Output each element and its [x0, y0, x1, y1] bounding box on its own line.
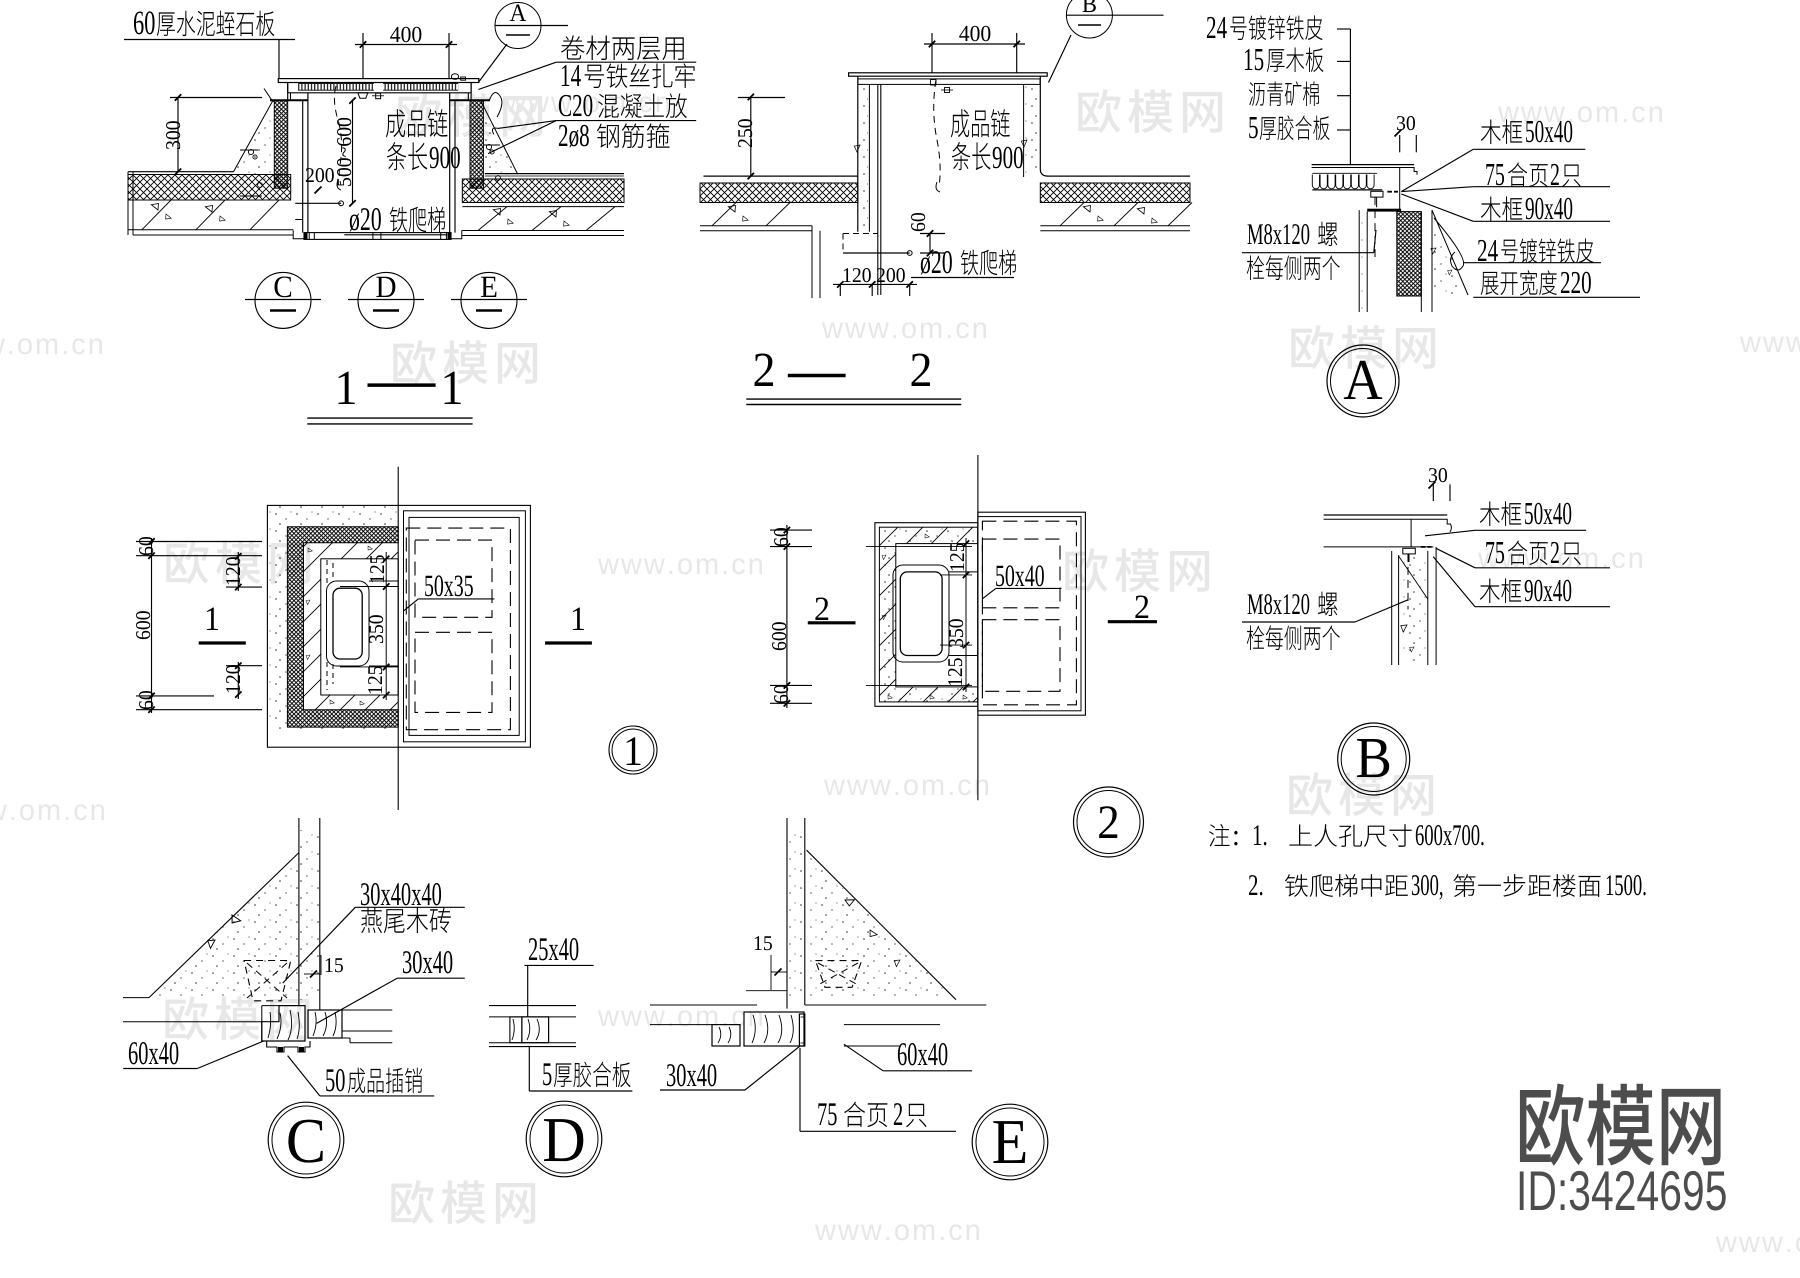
leader from B [1049, 35, 1072, 83]
wall insulation crosshatch left [274, 100, 287, 188]
section 1-1: label 60厚水泥蛭石板 [134, 11, 155, 34]
section 1-1: dim 400 [390, 27, 421, 43]
wall below slab left [811, 226, 813, 298]
wall below detail A [1358, 210, 1360, 312]
plan2 inner dims 125/350/125 [965, 538, 967, 692]
plan2 ext lines inner [866, 546, 972, 548]
detail E wall verticals [786, 818, 788, 1009]
dovetail wood brick dashed [244, 961, 291, 1001]
plan2 outer rect [875, 523, 978, 707]
triangles in C roof [230, 915, 242, 925]
detail B label M8x120 [1248, 594, 1310, 614]
detail bubble B big [1338, 723, 1410, 795]
plan1 inner dims 125/350/125 [385, 552, 387, 700]
plan1 120 dims [237, 552, 239, 591]
wall top line [270, 99, 308, 101]
detail C wall verticals [298, 818, 300, 1006]
hasp B [1403, 548, 1416, 554]
label 75合页2只 (E) [818, 1103, 836, 1125]
bitumen black band [1367, 209, 1401, 212]
dim 200 [306, 168, 334, 182]
dim 30 detail A [1397, 116, 1415, 130]
text 成品链条长900 (2-2) [951, 109, 1010, 137]
leader from A to lid [479, 44, 507, 82]
roof build-up right of shaft [485, 173, 624, 175]
right shaft wall 2-2 [1039, 76, 1041, 169]
detail C floor and wood sill [262, 1005, 279, 1007]
detail B dim 30 [1429, 468, 1447, 482]
left shaft wall 2-2 [857, 76, 859, 232]
text ø20铁爬梯 (2-2) [921, 251, 952, 274]
dim 60 small [929, 234, 931, 254]
dashed conduit [843, 233, 878, 235]
plan2 marker right [1135, 595, 1148, 618]
detail bubble A (section cut) [495, 3, 541, 49]
bubble C big [268, 1102, 344, 1178]
wood 30x40 E [712, 1005, 757, 1046]
detail B labels right [1480, 501, 1521, 526]
label 5厚胶合板 [543, 1063, 551, 1085]
hinge dashes [1387, 191, 1392, 193]
triangles in E roof [845, 897, 856, 907]
roof build-up left of shaft [128, 171, 234, 173]
detail A lid plate [1312, 164, 1415, 166]
bubble E big [972, 1104, 1048, 1180]
plan2 ring diagonal hatch [879, 527, 978, 702]
plan1 outer rect (concrete) [267, 505, 530, 747]
flashing tip left [264, 89, 273, 102]
text 成品链条长900 [386, 109, 448, 137]
detail E roof slope [807, 850, 956, 1000]
plan1 crosshatch ring [287, 527, 398, 727]
hasp at lid center [358, 93, 368, 98]
shaft walls section 1-1 [287, 83, 289, 101]
triangles in walls [854, 145, 860, 153]
right flashing slope C20 [481, 101, 518, 174]
flashing hook right (roll material) [489, 93, 502, 117]
leader [478, 62, 556, 89]
detail bubble A (big) [1327, 345, 1399, 417]
plan2 left dims [786, 525, 788, 708]
label 60x40 (E) [898, 1043, 947, 1065]
logo ID:3424695 [1520, 1171, 1726, 1211]
ladder rails [877, 84, 879, 295]
rebar symbols left [248, 149, 253, 154]
detail A label column left [1207, 17, 1227, 38]
left edge verticals [127, 172, 129, 235]
bubble D big [526, 1101, 602, 1177]
detail B wall [1391, 551, 1393, 665]
concrete right of wall A [1432, 210, 1468, 295]
ladder rung 2-2 [843, 252, 910, 254]
section 2-2 lid plate [849, 73, 1048, 76]
right label block: 卷材两层用/14号铁丝扎牢 [561, 35, 684, 60]
section 2-2: dim 400 [959, 26, 990, 42]
plan2 lid half [978, 512, 1086, 715]
wall crosshatch band A [1397, 212, 1422, 296]
label 25x40 [529, 938, 578, 960]
detail C roof slope [149, 853, 299, 998]
dim 15 detail C [326, 958, 343, 972]
label ticks and connector [1337, 28, 1350, 30]
roof left of shaft 2-2 [704, 175, 858, 177]
detail D wood blocks [510, 1017, 522, 1043]
plan2 marker left [815, 597, 828, 620]
chain dashed section1 [334, 86, 341, 185]
logo 欧模网 [1520, 1084, 1721, 1166]
plan1 lid half rects [404, 511, 526, 742]
plan2 bubble 2 [1074, 787, 1144, 857]
dovetail dashed E [816, 961, 862, 988]
wood piece 30x40 with grain [308, 1010, 342, 1038]
detail bubble B top [1066, 0, 1112, 38]
wood piece 60x40 with grain [262, 1006, 305, 1041]
rebar symbols right [486, 144, 491, 149]
label 60x40 (C) [129, 1042, 178, 1064]
plan1 lid dashed rects [406, 528, 510, 730]
label 30x40x40 燕尾木砖 [361, 883, 441, 905]
dim 300 left [177, 98, 179, 172]
dim 500~600 (rotated) [352, 101, 354, 204]
roof slab left (structure) [128, 199, 291, 201]
dims 120 200 bottom [833, 283, 917, 285]
ladder rung section1 [295, 202, 341, 204]
plan1 inner concrete strip w/ diagonal hatch [321, 559, 398, 695]
labels right of detail A [1481, 119, 1522, 144]
scallop band (insulation roll) [1312, 175, 1374, 189]
plan1 left dim chain [151, 538, 153, 713]
leader to lid [278, 40, 280, 79]
hasp square detail A [1371, 191, 1383, 197]
shaft bottom collar [293, 230, 304, 239]
bolt dashed detail A [1374, 197, 1376, 257]
plan1 hinge dashes [326, 560, 328, 585]
plan2 curb rounded rects [893, 565, 949, 662]
plan1 split line [397, 467, 399, 810]
label 50成品插销 [326, 1069, 344, 1091]
chain dashed 2-2 [934, 80, 940, 187]
plan2 frame rect [896, 544, 978, 687]
lid comb battens [298, 84, 374, 91]
dim 250 [750, 97, 752, 176]
plan1 label 50x35 [425, 575, 473, 596]
detail D plate lines [489, 1005, 576, 1007]
dim 15 E [755, 936, 772, 950]
detail B frame 50x40 [1410, 519, 1412, 547]
plan1 bubble 1 [609, 726, 657, 774]
plan1 curb rounded rects [327, 581, 370, 666]
right label block: C20混凝土放/2ø8钢筋箍 [559, 95, 592, 117]
hinge pin E [799, 1014, 804, 1046]
plan1 section marker left [207, 608, 218, 630]
label 30x40 (E) [667, 1064, 716, 1086]
pins 50成品插销 [267, 1041, 310, 1052]
frame under plate [1399, 168, 1401, 211]
roof right of shaft 2-2 [1048, 175, 1190, 177]
title 1-1 [339, 372, 355, 404]
detail E floor [650, 1004, 757, 1006]
lid pull ring [451, 74, 458, 80]
detail B lid plates [1324, 514, 1448, 516]
watermark layer [398, 93, 542, 137]
plan1 section marker right [573, 608, 584, 630]
wood 60x40 E [740, 1005, 844, 1046]
left flashing slope C20 [234, 101, 275, 172]
notes [1209, 824, 1229, 846]
wall insulation crosshatch right [470, 100, 483, 188]
text ø20铁爬梯 [350, 208, 381, 231]
leader curve 24号镀锌铁皮 bottom [1434, 218, 1464, 270]
title 2-2 [755, 354, 773, 386]
lid side rails [287, 83, 289, 93]
hinge dashes B [1421, 546, 1426, 548]
hasp marks [931, 80, 937, 86]
section 1-1: lid plate [278, 79, 479, 83]
bolt dashed B [1407, 554, 1409, 610]
label 30x40 (C) [403, 951, 452, 973]
label M8x120 left [1248, 224, 1310, 244]
plan2 split line [977, 455, 979, 800]
bubbles C D E under section 1-1 [255, 272, 311, 328]
leaders to flashing [498, 121, 556, 129]
plan2 label 50x40 [996, 565, 1044, 586]
